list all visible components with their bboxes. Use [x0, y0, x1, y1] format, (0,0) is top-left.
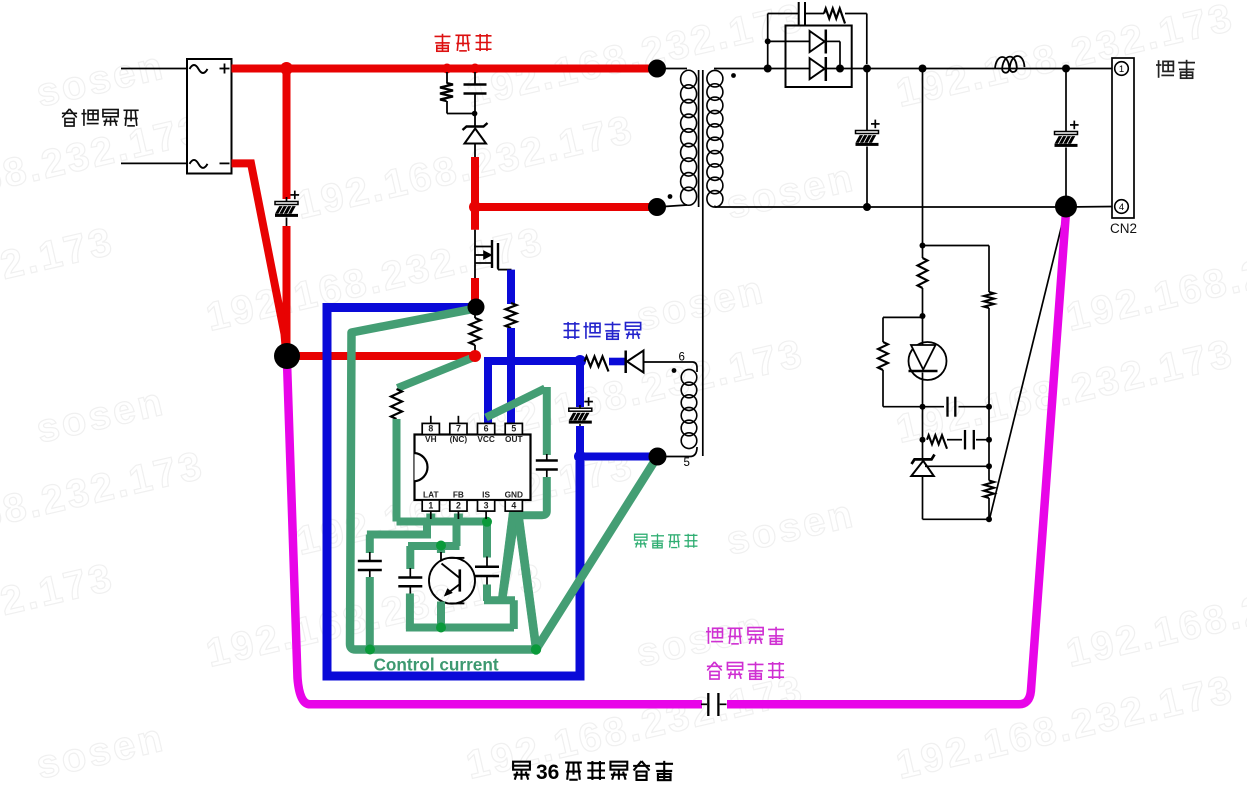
node rail dot c	[863, 65, 871, 73]
node zener tap dot	[986, 463, 992, 469]
wire row2 link	[947, 439, 962, 441]
wire fb return diagonal	[990, 208, 1067, 519]
inductor T1 primary winding	[657, 69, 697, 208]
wire green cap2 lower	[406, 594, 414, 630]
capacitor C9 (LAT)	[358, 552, 382, 579]
wire blue VCC riser	[484, 357, 492, 424]
wire fb row1	[883, 406, 989, 408]
node row2 dotB	[986, 437, 992, 443]
node green dot E	[531, 644, 541, 654]
wire snub top right	[845, 13, 867, 15]
polarity dot secondary	[731, 73, 736, 78]
wire red to primary	[475, 203, 657, 211]
resistor R7 (fb upper B)	[984, 292, 994, 308]
junction red dot snubR	[442, 64, 452, 74]
wire snub top left	[768, 13, 798, 15]
svg-text:7: 7	[456, 424, 461, 434]
wire red source stub	[471, 278, 479, 303]
pin stubs top	[431, 416, 459, 424]
wire blue vcc rail	[488, 357, 580, 365]
capacitor C7 (out snubber)	[799, 2, 805, 26]
svg-text:IS: IS	[482, 490, 490, 500]
wire green row1	[397, 518, 488, 526]
node green dot C	[436, 623, 446, 633]
node out1 bottom dot	[863, 203, 871, 211]
node primary top (big dot)	[648, 60, 666, 78]
resistor R2 (sense)	[470, 305, 481, 352]
wire green pin3 drop	[483, 522, 491, 558]
svg-text:2: 2	[456, 501, 461, 511]
wire green cap1 lower	[366, 577, 374, 647]
wire fb drop A	[922, 69, 924, 247]
junction red dot (input rail)	[280, 62, 293, 75]
wire green gnd node seg	[484, 596, 515, 604]
wire red cap to node	[283, 226, 291, 350]
wire zener tap	[925, 465, 989, 467]
node aux pin5 (big dot)	[649, 448, 667, 466]
node rail dot a	[764, 65, 772, 73]
resistor R6 (fb upper A)	[918, 246, 928, 319]
resistor R4 (vcc charge)	[585, 357, 609, 372]
svg-text:1: 1	[428, 501, 433, 511]
resistor R1 (snubber)	[440, 72, 474, 114]
junction out dot	[1062, 65, 1070, 73]
wire blue OUT riser	[507, 328, 515, 424]
junction red dot primary	[469, 201, 481, 213]
wire blue vcc cap lower	[576, 426, 584, 460]
svg-text:4: 4	[1119, 202, 1124, 213]
node rail dot d	[919, 65, 927, 73]
polarity dot aux	[672, 368, 677, 373]
node snub tap dot	[765, 38, 771, 44]
capacitor C5 (out electrolytic 1)	[856, 69, 880, 208]
svg-text:FB: FB	[453, 490, 464, 500]
svg-text:6: 6	[484, 424, 489, 434]
wire AC input top	[121, 68, 188, 70]
wire red clamp to drain	[471, 157, 479, 230]
svg-text:6: 6	[679, 352, 685, 364]
wire opto left branch	[883, 317, 923, 406]
node snubber junction	[472, 111, 478, 117]
svg-text:3: 3	[484, 501, 489, 511]
label 浪涌电流	[707, 662, 784, 679]
pin numbers bottom	[428, 501, 516, 511]
node fb bottom dot	[986, 516, 992, 522]
wire green row3 riser	[453, 524, 461, 546]
node output return (big dot)	[1055, 196, 1077, 218]
wire blue vcc cap upper	[576, 361, 584, 407]
resistor R10 (fb lower B)	[984, 481, 994, 498]
wire green pin4 wedge right	[514, 511, 541, 648]
core line right	[702, 70, 704, 456]
AC source BR1	[187, 59, 232, 174]
label pin 6 aux	[679, 352, 685, 364]
wire blue gate	[507, 270, 515, 304]
junction blue dot vcc	[574, 355, 586, 367]
caption 图 36 布线设计图	[513, 761, 673, 784]
svg-text:CN2: CN2	[1110, 221, 1137, 236]
wire D1 anode	[768, 40, 810, 42]
diode D1 (rect upper)	[810, 30, 840, 67]
diode D2L (rect lower)	[810, 57, 826, 81]
capacitor C11 (fb row1)	[948, 397, 956, 417]
wire red from AC minus (diagonal)	[232, 163, 287, 352]
connector CN2	[1112, 58, 1134, 218]
wire green row4	[406, 624, 514, 632]
wire fb A mid	[922, 407, 924, 440]
wire out gnd link	[1066, 206, 1114, 209]
wire green main loop	[350, 309, 658, 650]
wire row2 right	[976, 439, 989, 441]
wire green emitter	[437, 602, 445, 632]
svg-text:VCC: VCC	[477, 434, 495, 444]
junction blue dot vcc-cap	[574, 451, 586, 463]
wire green cap1 drop	[366, 535, 374, 554]
wire green pin4 wedge left	[498, 511, 520, 601]
svg-text:LAT: LAT	[423, 490, 439, 500]
node MOSFET source (big dot)	[468, 299, 485, 316]
inductor T1 aux winding	[658, 369, 697, 456]
node main GND (big dot)	[274, 343, 300, 369]
pin boxes top	[422, 423, 522, 434]
wire green vcc drop	[543, 387, 551, 455]
node green dot D	[365, 645, 375, 655]
transistor Q2 (BJT)	[429, 544, 475, 606]
svg-text:(NC): (NC)	[450, 434, 468, 444]
pin labels top	[425, 434, 523, 444]
op-amp U1 body	[415, 435, 531, 501]
svg-text:OUT: OUT	[505, 434, 523, 444]
wire fb bottom row	[923, 518, 990, 520]
capacitor C12 (fb row2)	[965, 430, 974, 450]
junction red dot snubC	[470, 64, 480, 74]
wire green cap3 lower	[483, 585, 491, 602]
resistor R9 (fb row2)	[927, 435, 947, 449]
node row2 dotA	[920, 437, 926, 443]
label CN2	[1110, 221, 1137, 236]
pin labels bottom	[423, 490, 523, 500]
capacitor C8 (Y-cap)	[701, 693, 727, 716]
capacitor C13 (IS)	[475, 557, 499, 586]
wire red input-cap drop	[283, 69, 291, 200]
optocoupler U2 LED	[909, 318, 947, 407]
svg-text:GND: GND	[505, 490, 523, 500]
wire magenta left	[287, 362, 702, 704]
node row1 dotB	[986, 404, 992, 410]
node green dot A	[482, 517, 492, 527]
label pin 5 aux	[684, 457, 690, 469]
resistor R5 (out snubber)	[824, 9, 845, 24]
wire blue stub	[609, 358, 625, 366]
wire red mid rail	[295, 352, 475, 360]
junction red dot sense	[469, 350, 481, 362]
capacitor C14 (VCC bypass)	[536, 454, 558, 478]
wire magenta right	[727, 212, 1066, 704]
inductor L1 (output)	[995, 56, 1025, 73]
resistor R8 (opto parallel)	[878, 342, 888, 370]
wire snub to resistor	[806, 13, 824, 15]
wire snub right riser	[866, 14, 868, 65]
label 驱动电流	[564, 322, 641, 339]
capacitor C2 (snubber)	[464, 72, 487, 114]
wire green row3	[408, 542, 460, 550]
label 输出	[1156, 60, 1195, 78]
node row1 dotA	[920, 404, 926, 410]
pin stubs bottom	[431, 511, 486, 519]
pin numbers top	[428, 424, 516, 434]
wire green row2	[367, 531, 431, 539]
node fb dot2	[920, 313, 926, 319]
label 交流输入	[62, 109, 139, 126]
label 主电流	[435, 34, 492, 51]
node green dot B	[436, 541, 446, 551]
label 控制电流	[635, 534, 698, 548]
wire green gnd riser	[510, 600, 518, 629]
pin boxes bottom	[422, 500, 522, 511]
wire green vcc lower	[514, 477, 547, 515]
wire aux top corner	[688, 362, 697, 372]
wire secondary top rail	[786, 68, 1112, 70]
svg-text:VH: VH	[425, 434, 437, 444]
core line left	[698, 70, 700, 207]
wire green pin2 nub	[454, 514, 463, 523]
node primary bottom (big dot)	[648, 198, 666, 216]
svg-text:5: 5	[511, 424, 516, 434]
wire green pin1 nub	[426, 514, 435, 523]
resistor R11 (startup)	[391, 389, 402, 419]
capacitor C1 (input electrolytic)	[275, 191, 299, 228]
diode box D2	[786, 26, 852, 88]
wire green vcc diag	[486, 389, 545, 418]
wire fb top link	[923, 245, 990, 247]
wire snub left riser	[767, 14, 769, 69]
wire green startup diag	[398, 358, 474, 389]
diode D5 (clamp zener)	[463, 114, 488, 159]
svg-text:4: 4	[511, 501, 516, 511]
svg-text:36: 36	[536, 761, 559, 784]
node fb dot1	[920, 243, 926, 249]
wire fb B col	[988, 246, 990, 520]
diode D3 (vcc rectifier)	[626, 351, 688, 374]
inductor T1 secondary winding	[707, 69, 786, 208]
wire green row2 riser	[423, 522, 431, 535]
svg-text:8: 8	[428, 424, 433, 434]
svg-text:Control current: Control current	[374, 655, 499, 675]
capacitor C10 (FB)	[398, 568, 422, 595]
polarity dot primary	[668, 194, 673, 199]
wire blue box loop	[327, 308, 580, 677]
label 滤波器和	[706, 627, 784, 644]
svg-text:1: 1	[1119, 64, 1124, 75]
wire green startup drop	[393, 419, 401, 522]
wire red top rail	[232, 65, 658, 73]
capacitor C6 (out electrolytic 2)	[1055, 69, 1079, 199]
svg-text:5: 5	[684, 457, 690, 469]
resistor R3 (gate)	[506, 303, 517, 328]
node rail dot b	[836, 65, 844, 73]
diode D4 (zener ref)	[911, 440, 934, 520]
capacitor C4 (vcc electrolytic)	[569, 397, 593, 428]
transistor Q1 (MOSFET)	[474, 230, 511, 278]
wire secondary bottom rail	[715, 206, 1066, 208]
label Control current	[374, 655, 499, 675]
wire green cap2 drop	[406, 546, 414, 569]
wire blue to aux return	[580, 453, 652, 461]
wire AC input bottom	[121, 162, 188, 164]
